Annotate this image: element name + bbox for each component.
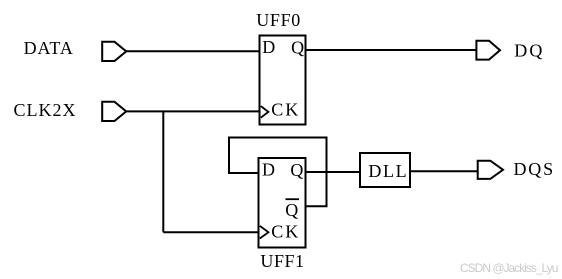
svg-text:CK: CK [271,100,300,120]
svg-text:CK: CK [271,222,300,242]
svg-text:DATA: DATA [24,38,74,58]
svg-text:D: D [262,37,275,57]
svg-text:DQS: DQS [514,159,555,179]
svg-text:Q: Q [290,160,303,180]
svg-text:CSDN @Jackiss_Lyu: CSDN @Jackiss_Lyu [460,261,558,275]
svg-text:DLL: DLL [368,161,408,181]
svg-text:UFF0: UFF0 [256,10,301,30]
svg-text:D: D [262,160,275,180]
svg-text:Q: Q [285,200,298,220]
svg-text:Q: Q [291,37,304,57]
svg-text:UFF1: UFF1 [260,251,304,271]
svg-text:DQ: DQ [514,40,544,60]
svg-text:CLK2X: CLK2X [14,100,77,120]
